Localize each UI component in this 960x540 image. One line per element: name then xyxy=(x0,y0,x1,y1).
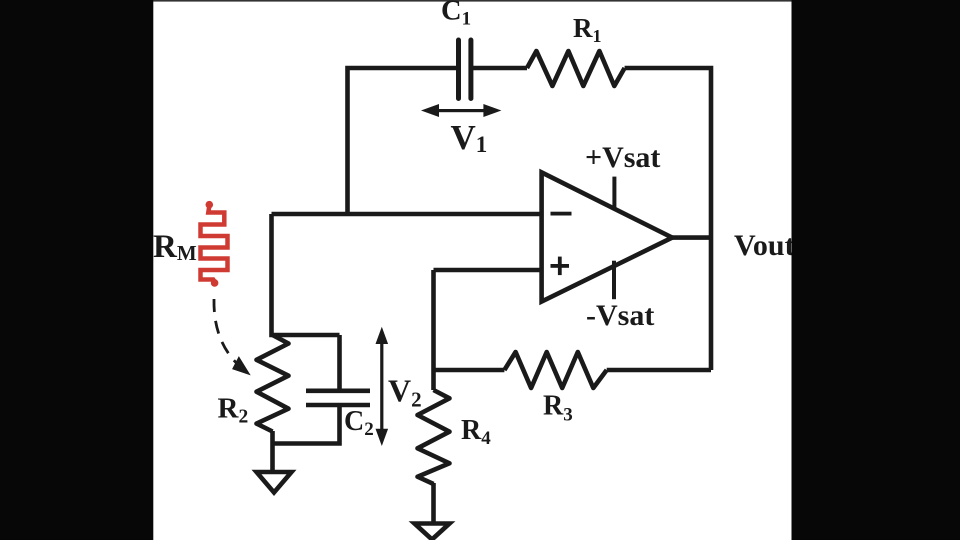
wire R2 bottom to ground xyxy=(270,431,275,472)
resistor R1 xyxy=(527,51,625,86)
ground (R2) xyxy=(257,472,292,493)
wire plus node down to R4 xyxy=(431,270,436,390)
top border line xyxy=(153,0,792,2)
wire output node xyxy=(668,235,711,240)
wire R1 to right rail, down to R3 wire xyxy=(625,68,711,370)
-Vsat supply line xyxy=(612,261,616,300)
capacitor C2 lead top xyxy=(337,335,342,389)
V1 arrow (double-headed horizontal) xyxy=(421,104,501,117)
wire C1 to R1 xyxy=(473,66,527,71)
wire R3 to right rail xyxy=(607,368,711,373)
wire R3 junction xyxy=(434,368,505,373)
thermistor RM (red meander) xyxy=(201,206,228,282)
op-amp minus symbol xyxy=(551,212,572,216)
wire top-left: vertical from minus-node up and right to C1 xyxy=(348,68,457,216)
svg-text:-Vsat: -Vsat xyxy=(586,299,654,332)
wire plus input xyxy=(434,268,542,273)
wire left branch down xyxy=(272,214,340,335)
svg-text:+Vsat: +Vsat xyxy=(585,141,660,174)
resistor R3 xyxy=(504,352,606,388)
ground (R4) xyxy=(415,524,450,540)
V2 arrow (double-headed vertical) xyxy=(376,327,389,446)
resistor R2 xyxy=(257,335,289,432)
capacitor C2 lead bottom xyxy=(273,405,340,444)
left black bar xyxy=(0,0,153,540)
wire R4 bottom to ground xyxy=(431,483,436,523)
svg-text:Vout: Vout xyxy=(734,229,795,262)
op-amp plus symbol xyxy=(551,257,570,276)
op-amp U1 triangle xyxy=(542,172,673,301)
capacitor C1 plates xyxy=(459,40,471,99)
resistor R4 xyxy=(418,390,450,484)
right black bar xyxy=(792,0,960,540)
dashed arrow from RM to R2 xyxy=(214,299,244,370)
capacitor C2 plates xyxy=(306,391,370,405)
+Vsat supply line xyxy=(612,177,616,211)
wire minus input xyxy=(272,212,542,217)
